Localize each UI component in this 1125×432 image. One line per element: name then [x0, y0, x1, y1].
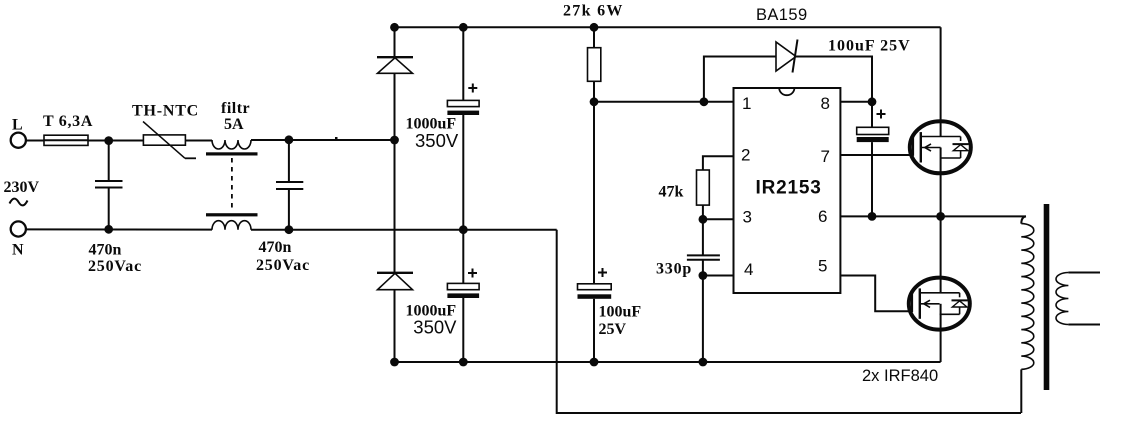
svg-text:BA159: BA159 — [756, 6, 808, 24]
svg-text:470n: 470n — [89, 242, 122, 259]
svg-text:47k: 47k — [659, 184, 684, 201]
svg-text:350V: 350V — [415, 130, 459, 151]
wire pin3 — [703, 218, 734, 220]
wire top rail — [395, 26, 941, 28]
wire NTC to choke — [185, 140, 212, 142]
wire Q1 source to VS — [940, 148, 942, 217]
diode D3 BA159 — [776, 42, 796, 71]
choke coupling dashed line — [231, 158, 233, 211]
wire L to fuse — [26, 140, 44, 142]
common-mode choke L1 top winding — [212, 140, 251, 149]
capacitor C3 1000uF 350V — [462, 27, 464, 100]
wire pin4 node to ground rail — [702, 276, 704, 363]
plus sign C5 — [877, 110, 886, 119]
node junction cap2 top — [285, 135, 294, 144]
wire pin7 to M1 gate — [840, 154, 913, 156]
svg-text:N: N — [12, 242, 24, 259]
svg-text:2x IRF840: 2x IRF840 — [862, 367, 938, 385]
wire pin4 — [703, 275, 734, 277]
svg-text:250Vac: 250Vac — [88, 258, 142, 275]
wire bottom rail — [395, 361, 941, 363]
wire BA159 to bootstrap — [796, 57, 873, 102]
svg-text:8: 8 — [821, 94, 830, 113]
choke core bars — [206, 152, 258, 155]
plus sign C6 — [598, 268, 607, 277]
svg-text:T 6,3A: T 6,3A — [43, 113, 93, 130]
svg-text:100uF 25V: 100uF 25V — [828, 38, 911, 55]
wire secondary top lead — [1068, 272, 1100, 274]
capacitor C1 470n — [108, 141, 110, 182]
terminal N — [11, 221, 26, 236]
wire secondary bottom lead — [1068, 324, 1100, 326]
svg-text:2: 2 — [741, 146, 750, 165]
wire Q2 drain — [940, 216, 942, 292]
wire Q1 drain — [940, 27, 942, 136]
svg-text:4: 4 — [744, 260, 753, 279]
diode D2 — [377, 272, 413, 274]
svg-text:IR2153: IR2153 — [756, 178, 822, 199]
wire Q2 source to rail — [940, 304, 942, 362]
wire pin2 — [703, 156, 734, 170]
svg-text:6: 6 — [818, 207, 827, 226]
capacitor C2 470n — [288, 140, 290, 182]
capacitor C7 330p — [702, 219, 704, 255]
wire pin5 to M2 gate — [840, 276, 912, 312]
wire pin6 VS rail — [840, 215, 1026, 217]
plus sign C4 — [468, 269, 477, 278]
svg-text:350V: 350V — [413, 317, 457, 338]
node junction fuse/cap — [104, 136, 113, 145]
wire choke to AC node — [251, 139, 395, 141]
wire diode string vertical — [394, 27, 396, 57]
diode D1 — [377, 56, 413, 58]
svg-text:3: 3 — [743, 208, 752, 227]
wire fuse to NTC — [88, 140, 143, 142]
tilde AC symbol — [10, 199, 28, 206]
svg-text:250Vac: 250Vac — [256, 257, 310, 274]
svg-text:L: L — [12, 117, 23, 134]
capacitor C5 100uF 25V bootstrap — [871, 102, 873, 128]
svg-text:25V: 25V — [599, 321, 627, 338]
common-mode choke L1 bottom winding — [212, 221, 251, 230]
transistor Q1 IRF840 top — [910, 121, 971, 173]
transformer T1 primary — [1021, 216, 1026, 223]
stray mark on wire — [335, 137, 338, 139]
plus sign C3 — [468, 84, 477, 93]
svg-text:filtr: filtr — [221, 100, 250, 117]
node AC input to doubler — [390, 136, 399, 145]
svg-text:330p: 330p — [656, 261, 692, 278]
terminal L — [11, 133, 26, 148]
svg-text:7: 7 — [821, 147, 830, 166]
resistor R2 47k — [697, 170, 710, 205]
wire pin8 — [840, 101, 872, 103]
capacitor C6 100uF 25V supply — [593, 102, 595, 284]
wire up to BA159 — [704, 57, 776, 102]
IC U1 IR2153 body — [734, 88, 841, 293]
fuse F1 T 6,3A — [44, 135, 88, 145]
svg-text:470n: 470n — [259, 239, 292, 256]
transistor Q2 IRF840 bottom — [909, 278, 970, 330]
wire VCC row — [594, 101, 734, 103]
transformer T1 core — [1044, 204, 1050, 390]
wire N bottom — [26, 228, 212, 230]
thermistor TH-NTC — [143, 135, 185, 145]
wire return down — [557, 230, 1021, 413]
svg-text:230V: 230V — [4, 179, 40, 196]
transformer T1 secondary — [1056, 273, 1068, 325]
svg-text:1: 1 — [742, 94, 751, 113]
svg-text:5: 5 — [818, 257, 827, 276]
svg-text:5A: 5A — [224, 116, 244, 133]
svg-text:27k 6W: 27k 6W — [563, 3, 624, 20]
svg-text:TH-NTC: TH-NTC — [132, 103, 199, 120]
resistor R1 27k 6W — [593, 27, 595, 47]
wire primary bottom — [1020, 369, 1022, 413]
svg-text:100uF: 100uF — [599, 304, 642, 321]
capacitor C4 1000uF 350V — [462, 230, 464, 284]
node midpoint junction — [459, 225, 468, 234]
wire choke out bottom — [251, 229, 557, 231]
